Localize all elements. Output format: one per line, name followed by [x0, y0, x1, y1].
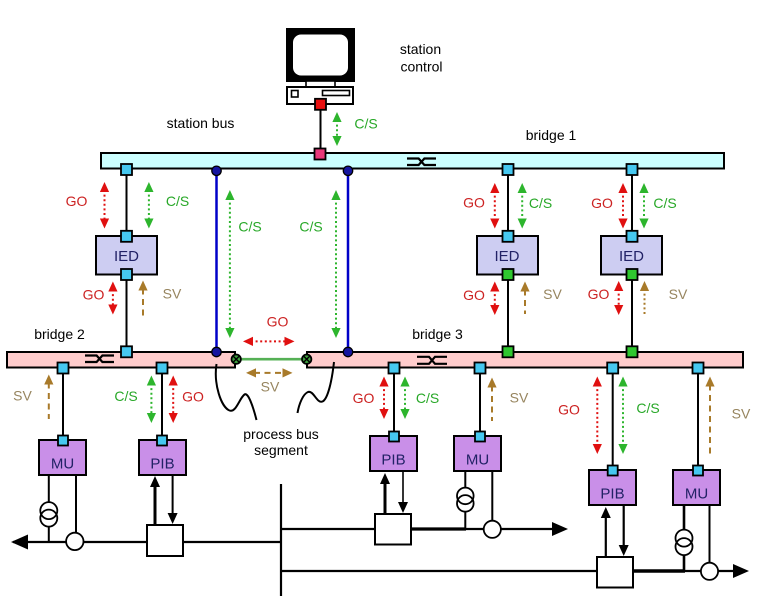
svg-text:C/S: C/S — [299, 219, 322, 235]
svg-text:station bus: station bus — [167, 115, 235, 131]
svg-text:bridge 1: bridge 1 — [526, 127, 577, 143]
svg-text:GO: GO — [182, 389, 204, 405]
svg-text:GO: GO — [588, 286, 610, 302]
svg-text:SV: SV — [261, 379, 280, 395]
svg-text:IED: IED — [114, 248, 139, 265]
svg-text:C/S: C/S — [238, 219, 261, 235]
svg-text:C/S: C/S — [529, 195, 552, 211]
svg-text:SV: SV — [510, 390, 529, 406]
svg-text:C/S: C/S — [416, 390, 439, 406]
svg-text:station: station — [400, 41, 441, 57]
svg-text:SV: SV — [732, 406, 751, 422]
svg-text:GO: GO — [463, 195, 485, 211]
svg-text:MU: MU — [51, 456, 74, 473]
svg-text:segment: segment — [254, 442, 308, 458]
svg-text:GO: GO — [83, 287, 105, 303]
svg-text:IED: IED — [494, 248, 519, 265]
svg-text:GO: GO — [66, 193, 88, 209]
svg-text:PIB: PIB — [600, 486, 624, 503]
svg-text:control: control — [400, 59, 442, 75]
svg-text:bridge 3: bridge 3 — [412, 326, 463, 342]
svg-text:bridge 2: bridge 2 — [34, 326, 85, 342]
svg-text:MU: MU — [466, 452, 489, 469]
svg-text:SV: SV — [543, 286, 562, 302]
svg-text:GO: GO — [591, 195, 613, 211]
svg-text:SV: SV — [163, 286, 182, 302]
svg-text:C/S: C/S — [166, 193, 189, 209]
svg-text:SV: SV — [13, 388, 32, 404]
svg-text:GO: GO — [353, 390, 375, 406]
svg-text:C/S: C/S — [354, 116, 377, 132]
svg-text:IED: IED — [619, 248, 644, 265]
svg-text:GO: GO — [267, 314, 289, 330]
svg-text:C/S: C/S — [114, 388, 137, 404]
svg-text:MU: MU — [685, 486, 708, 503]
svg-text:PIB: PIB — [381, 452, 405, 469]
svg-text:GO: GO — [558, 402, 580, 418]
svg-text:GO: GO — [463, 287, 485, 303]
svg-text:process bus: process bus — [243, 426, 318, 442]
svg-text:PIB: PIB — [150, 456, 174, 473]
svg-text:SV: SV — [669, 286, 688, 302]
svg-text:C/S: C/S — [636, 400, 659, 416]
svg-text:C/S: C/S — [653, 195, 676, 211]
